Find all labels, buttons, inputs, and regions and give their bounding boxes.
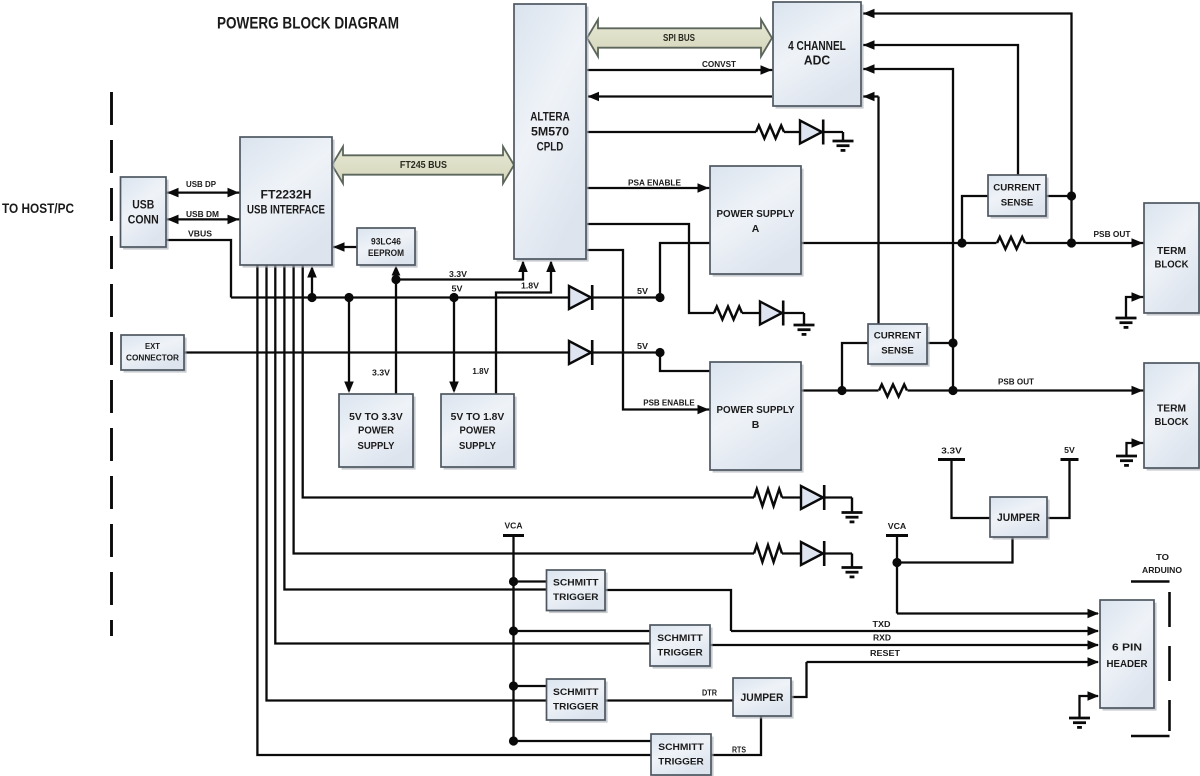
node VCA tap 1 [509, 577, 518, 586]
ground G3 [851, 498, 853, 513]
power symbol 3.3V [938, 458, 965, 461]
wire 5V to JUMPER [1047, 460, 1070, 519]
ground G5 [1125, 317, 1127, 319]
wire bus line 5 to SCHMITT TRIGGER 3 [267, 265, 547, 701]
svg-text:TRIGGER: TRIGGER [553, 592, 599, 603]
wire TERM BLOCK 2 ground tap [1127, 443, 1145, 456]
block POWER SUPPLY B [713, 365, 804, 473]
block 5V TO 3.3V POWER SUPPLY [342, 397, 416, 470]
wire PSB ENABLE [587, 250, 710, 410]
diode D2 ext 5V [569, 341, 591, 364]
svg-text:6 PIN: 6 PIN [1112, 641, 1142, 653]
wire ADC channel 1 sense line [863, 14, 1072, 244]
wire DTR SCHMITT TRIGGER 3 to JUMPER [605, 699, 733, 701]
wire VCA to header [897, 612, 1098, 614]
svg-text:TO HOST/PC: TO HOST/PC [2, 201, 74, 216]
wire USB DM [166, 218, 240, 220]
svg-text:5V TO 3.3V: 5V TO 3.3V [349, 412, 403, 423]
svg-text:HEADER: HEADER [1107, 658, 1148, 670]
block TERM BLOCK 1 [1147, 206, 1200, 316]
svg-text:USB DP: USB DP [186, 180, 217, 189]
diode D5 [801, 486, 823, 509]
svg-text:DTR: DTR [702, 688, 717, 697]
svg-text:TERM: TERM [1157, 402, 1186, 414]
svg-text:1.8V: 1.8V [472, 367, 489, 376]
svg-text:5V TO 1.8V: 5V TO 1.8V [451, 412, 505, 423]
block POWER SUPPLY A [713, 169, 804, 277]
block EXT CONNECTOR [124, 338, 187, 373]
power symbol VCA left [503, 534, 524, 537]
svg-text:3.3V: 3.3V [941, 446, 962, 455]
svg-text:5V: 5V [452, 285, 464, 294]
svg-text:USB DM: USB DM [186, 210, 219, 219]
svg-text:RXD: RXD [873, 633, 891, 642]
wire tap to SCHMITT TRIGGER 1 [514, 580, 547, 582]
wire VBUS return into FT2232H [311, 268, 313, 298]
wire CURRENT SENSE B left tap [842, 343, 868, 391]
wire D1 to node [593, 296, 660, 298]
block 5V TO 1.8V POWER SUPPLY [444, 397, 517, 470]
svg-text:5V: 5V [637, 342, 649, 351]
wire VCA right rail [896, 536, 898, 614]
block SCHMITT TRIGGER 1 [549, 573, 608, 614]
resistor R6 [754, 545, 782, 562]
wire TERM BLOCK 1 ground tap [1126, 297, 1144, 318]
svg-text:4 CHANNEL: 4 CHANNEL [788, 39, 846, 53]
svg-text:5M570: 5M570 [531, 125, 569, 139]
diode D6 [801, 542, 823, 565]
block JUMPER select [993, 500, 1050, 540]
svg-text:USB INTERFACE: USB INTERFACE [247, 205, 325, 217]
diode D1 5V rail [569, 286, 591, 309]
wire CURRENT SENSE A left tap [962, 196, 988, 243]
wire R6 to D6 [782, 552, 801, 554]
ground G4 [851, 554, 853, 568]
svg-text:CURRENT: CURRENT [874, 331, 922, 342]
node junction 5V rail to 3.3V supply [344, 293, 353, 302]
ground G7 [1078, 717, 1080, 719]
wire header ground tap [1080, 696, 1099, 718]
svg-text:CONN: CONN [128, 215, 159, 227]
svg-text:ARDUINO: ARDUINO [1142, 565, 1182, 575]
wire CPLD status to LED chain 2 [587, 224, 714, 313]
wire 3.3V output / EEPROM supply [395, 270, 397, 394]
bus arrow FT245 BUS [332, 147, 514, 184]
svg-text:B: B [752, 419, 760, 431]
wire 5V feed to POWER SUPPLY B [660, 353, 710, 372]
wire RESET to header [807, 661, 1099, 663]
wire 5V feed to POWER SUPPLY A [660, 243, 710, 298]
svg-text:TO: TO [1156, 552, 1169, 562]
block SCHMITT TRIGGER 4 [654, 737, 714, 776]
svg-text:SCHMITT: SCHMITT [553, 687, 599, 698]
wire VBUS [166, 240, 231, 298]
wire current sense B to ADC channel 4 [863, 95, 879, 97]
diode D4 [800, 121, 822, 144]
arduino boundary dashed bracket [1131, 580, 1170, 583]
svg-text:BLOCK: BLOCK [1155, 416, 1189, 428]
svg-text:3.3V: 3.3V [372, 368, 391, 377]
node junction sense right [1067, 191, 1076, 200]
svg-text:BLOCK: BLOCK [1155, 259, 1189, 271]
diode D3 [760, 302, 782, 325]
svg-text:POWER SUPPLY: POWER SUPPLY [717, 404, 795, 416]
wire PSA ENABLE [587, 187, 710, 189]
wire bus line 1 to LED chain 3 [303, 265, 754, 498]
node junction 5V-B [655, 348, 664, 357]
wire D5 to ground [825, 496, 852, 498]
wire 1.8V rail to CPLD [496, 262, 551, 394]
svg-text:SCHMITT: SCHMITT [553, 578, 599, 589]
wire 5V rail [231, 296, 569, 298]
svg-text:EEPROM: EEPROM [368, 248, 404, 259]
wire D3 to ground [784, 312, 804, 314]
svg-text:CONNECTOR: CONNECTOR [126, 354, 179, 363]
svg-text:SENSE: SENSE [1001, 197, 1034, 208]
svg-text:A: A [752, 223, 760, 235]
host boundary dashed line [110, 92, 113, 636]
node junction 3.3V rail [391, 275, 400, 284]
wire CPLD status to LED chain 1 [587, 131, 756, 133]
svg-text:PSB OUT: PSB OUT [1094, 230, 1131, 239]
svg-text:PSB ENABLE: PSB ENABLE [643, 398, 695, 407]
svg-text:CURRENT: CURRENT [993, 183, 1041, 194]
node junction PSB out left [837, 386, 846, 395]
wire bus line 6 to SCHMITT TRIGGER 4 [257, 265, 651, 755]
node VCA tap 4 [509, 736, 518, 745]
power symbol VCA right [886, 534, 908, 537]
svg-text:TERM: TERM [1157, 245, 1186, 257]
ground G2 [803, 313, 805, 325]
svg-text:TRIGGER: TRIGGER [658, 757, 704, 768]
block SCHMITT TRIGGER 3 [549, 682, 608, 723]
wire EEPROM to FT2232H [333, 246, 357, 248]
resistor R2 [714, 307, 742, 320]
bus arrow SPI BUS [587, 20, 772, 57]
wire R5 to D5 [782, 496, 801, 498]
resistor R1 [756, 126, 784, 139]
svg-text:RESET: RESET [870, 649, 900, 658]
wire ADC channel 2 sense line [863, 45, 1018, 175]
wire EXT CONNECTOR output [184, 351, 569, 353]
node junction 5V rail to 1.8V supply [449, 293, 458, 302]
resistor R3 shunt A [997, 235, 1026, 251]
wire CURRENT SENSE B right tap [927, 342, 953, 344]
svg-text:POWER SUPPLY: POWER SUPPLY [717, 208, 795, 220]
block ALTERA 5M570 CPLD U1 [517, 7, 589, 262]
wire D2 to node [593, 351, 660, 353]
node junction PSB out right [948, 386, 957, 395]
wire VCA to JUMPER select [897, 537, 1013, 563]
svg-text:5V: 5V [1064, 446, 1075, 455]
svg-text:VBUS: VBUS [188, 229, 213, 238]
svg-text:POWER: POWER [460, 426, 497, 437]
svg-text:VCA: VCA [505, 521, 523, 530]
svg-text:USB: USB [132, 200, 154, 212]
svg-text:POWERG BLOCK DIAGRAM: POWERG BLOCK DIAGRAM [217, 14, 399, 33]
svg-text:CPLD: CPLD [537, 140, 564, 154]
node junction sense B right [948, 338, 957, 347]
wire tap to SCHMITT TRIGGER 3 [514, 685, 547, 687]
svg-text:SCHMITT: SCHMITT [658, 742, 704, 753]
block CURRENT SENSE A [991, 178, 1049, 219]
wire bus line 4 to SCHMITT TRIGGER 2 [275, 265, 650, 644]
wire CONVST [587, 69, 773, 71]
block 4 CHANNEL ADC [776, 5, 864, 109]
svg-text:3.3V: 3.3V [449, 270, 468, 279]
block 93LC46 EEPROM [360, 231, 418, 268]
node junction 5V-A [655, 293, 664, 302]
wire TXD to header [731, 630, 1098, 632]
block USB CONN [123, 180, 169, 250]
svg-text:SPI BUS: SPI BUS [663, 33, 695, 44]
wire D4 to ground [824, 131, 843, 133]
svg-text:PSB OUT: PSB OUT [998, 377, 1034, 386]
svg-text:SUPPLY: SUPPLY [358, 441, 395, 452]
wire R2 to D3 [742, 312, 760, 314]
resistor R5 [754, 489, 782, 506]
node VCA tap 3 [509, 681, 518, 690]
svg-text:93LC46: 93LC46 [371, 237, 401, 248]
node VCA junction [892, 558, 901, 567]
wire R1 to D4 [784, 131, 800, 133]
block JUMPER reset [736, 681, 794, 719]
svg-text:PSA ENABLE: PSA ENABLE [628, 178, 682, 187]
wire bus line 2 to LED chain 4 [294, 265, 754, 554]
wire bus line 3 to SCHMITT TRIGGER 1 [284, 265, 546, 590]
wire POWER SUPPLY A output to TERM BLOCK 1 [801, 242, 1144, 244]
wire ADC channel 3 sense line [863, 69, 953, 391]
svg-text:ALTERA: ALTERA [530, 109, 570, 123]
power symbol 5V [1061, 458, 1079, 461]
wire SCHMITT TRIGGER 1 output TXD [605, 590, 731, 631]
wire ADC to CPLD feedback [588, 95, 772, 97]
wire tap to SCHMITT TRIGGER 4 [514, 740, 652, 742]
svg-text:SENSE: SENSE [881, 345, 914, 356]
block SCHMITT TRIGGER 2 [653, 628, 713, 669]
svg-text:JUMPER: JUMPER [997, 512, 1040, 524]
svg-text:EXT: EXT [145, 342, 160, 351]
wire tap to SCHMITT TRIGGER 2 [514, 630, 651, 632]
svg-text:CONVST: CONVST [702, 60, 736, 69]
wire RXD to header [710, 644, 1098, 646]
block TERM BLOCK 2 [1147, 366, 1200, 471]
node VCA tap 2 [509, 626, 518, 635]
node junction 5V rail / VBUS [307, 293, 316, 302]
wire 5V to 1.8V supply input [453, 298, 455, 392]
svg-text:ADC: ADC [804, 53, 830, 67]
block CURRENT SENSE B [871, 327, 930, 367]
svg-text:FT2232H: FT2232H [261, 190, 312, 202]
node junction PSA out right [1067, 238, 1076, 247]
wire CURRENT SENSE A right tap [1046, 195, 1072, 197]
wire JUMPER to RESET [791, 662, 807, 697]
svg-text:VCA: VCA [888, 522, 907, 531]
wire 3.3V rail to CPLD [396, 262, 523, 280]
svg-text:1.8V: 1.8V [521, 281, 540, 290]
svg-text:SCHMITT: SCHMITT [657, 633, 703, 644]
svg-text:POWER: POWER [358, 426, 395, 437]
wire D6 to ground [825, 552, 852, 554]
ground G6 [1125, 455, 1127, 457]
svg-text:RTS: RTS [732, 745, 747, 754]
wire 3.3V to JUMPER [952, 460, 991, 519]
svg-text:JUMPER: JUMPER [741, 692, 784, 704]
wire POWER SUPPLY B output to TERM BLOCK 2 [801, 389, 1144, 391]
svg-text:TRIGGER: TRIGGER [553, 702, 599, 713]
svg-text:TXD: TXD [873, 620, 891, 629]
wire USB DP [166, 191, 240, 193]
svg-text:SUPPLY: SUPPLY [459, 441, 496, 452]
wire 5V to 3.3V supply input [348, 298, 350, 392]
resistor R4 shunt B [879, 383, 908, 399]
ground G1 [842, 132, 844, 141]
node junction PSA out left [957, 238, 966, 247]
wire VCA rail [512, 536, 514, 742]
svg-text:5V: 5V [637, 287, 649, 296]
wire RTS SCHMITT TRIGGER 4 to JUMPER [711, 716, 761, 755]
svg-text:TRIGGER: TRIGGER [657, 648, 703, 659]
block 6 PIN HEADER [1103, 603, 1157, 711]
svg-text:FT245 BUS: FT245 BUS [400, 160, 447, 171]
block FT2232H USB INTERFACE [243, 140, 335, 268]
